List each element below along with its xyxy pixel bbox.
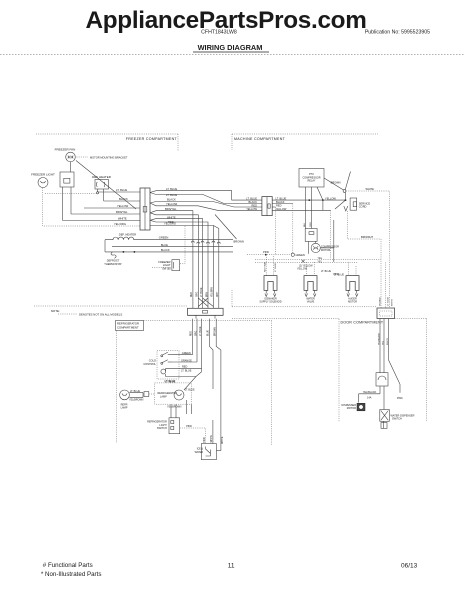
- relay pin wires: [305, 187, 307, 229]
- wire green: [172, 354, 192, 356]
- svg-text:LT. BLUE: LT. BLUE: [166, 193, 177, 197]
- wire lt.blue to service cord: [272, 199, 345, 201]
- junction dots on supply line: [308, 199, 310, 201]
- control switch a: [161, 355, 163, 357]
- svg-text:YEL/ORG: YEL/ORG: [164, 222, 176, 226]
- svg-text:YEL/BROWN: YEL/BROWN: [129, 399, 144, 402]
- relay brown lead: [324, 178, 344, 190]
- svg-text:SW (B): SW (B): [162, 266, 170, 270]
- svg-text:MOTOR MOUNTING BRACKET: MOTOR MOUNTING BRACKET: [90, 155, 128, 159]
- bar fanout wire white drop: [150, 213, 198, 308]
- svg-text:BLACK: BLACK: [161, 248, 170, 252]
- svg-text:NOTE:: NOTE:: [51, 309, 60, 313]
- drop wire color labels: [191, 287, 219, 297]
- svg-text:SWITCH: SWITCH: [157, 427, 167, 430]
- svg-text:YELLOW: YELLOW: [276, 207, 287, 211]
- svg-text:WHITE: WHITE: [222, 436, 224, 444]
- svg-text:WIRING DIAGRAM: WIRING DIAGRAM: [198, 43, 263, 52]
- svg-text:VALVE: VALVE: [307, 300, 315, 303]
- pink splice: [265, 254, 267, 256]
- line switch SW: [343, 190, 346, 193]
- drop wire white right: [218, 229, 220, 309]
- svg-text:# Functional Parts: # Functional Parts: [43, 562, 93, 569]
- freezer light wire (dashed, not on all models): [45, 192, 97, 194]
- wire black: [272, 203, 293, 205]
- cold control box CC: [157, 351, 179, 380]
- refrigerator compartment boundary: [144, 320, 272, 322]
- auger relay module: [376, 373, 388, 386]
- svg-text:BRN/WHT: BRN/WHT: [361, 235, 374, 239]
- svg-text:COMPARTMENT: COMPARTMENT: [117, 326, 139, 330]
- pink wire: [180, 428, 206, 444]
- svg-text:YEL/BLACK: YEL/BLACK: [363, 391, 377, 394]
- wire black lower: [105, 251, 233, 253]
- svg-text:LT. BLUE: LT. BLUE: [388, 296, 390, 306]
- svg-text:MOTOR: MOTOR: [321, 249, 330, 252]
- svg-text:PINK: PINK: [333, 273, 339, 276]
- wire lt.blue: [166, 372, 202, 377]
- svg-text:RED: RED: [276, 203, 282, 207]
- svg-text:MOTOR: MOTOR: [348, 300, 357, 303]
- svg-text:BRN: BRN: [206, 292, 208, 297]
- svg-text:WHT: WHT: [217, 291, 219, 297]
- wire orange: [172, 361, 197, 363]
- svg-text:NEUTRAL: NEUTRAL: [263, 261, 266, 272]
- svg-text:YEL/BLACK: YEL/BLACK: [377, 333, 380, 345]
- svg-text:BRN/YEL: BRN/YEL: [165, 207, 177, 211]
- wire brn/yel: [71, 213, 140, 215]
- water valve receptacle P2: [306, 262, 308, 276]
- lamp drop wires: [171, 404, 176, 418]
- lamp connector: [144, 392, 149, 397]
- brown callout: [215, 215, 237, 240]
- svg-text:LT. BLUE: LT. BLUE: [246, 196, 257, 200]
- svg-text:THERMOSTAT: THERMOSTAT: [104, 262, 122, 266]
- bar fanout wire lt.blue (2): [150, 193, 262, 204]
- wire yellow: [272, 209, 330, 211]
- svg-text:RED: RED: [182, 366, 187, 369]
- wire red: [166, 368, 202, 371]
- machine wiring connector J2: [262, 197, 272, 216]
- svg-text:PINK: PINK: [186, 425, 192, 428]
- door block feed labels: [379, 296, 393, 306]
- water dispenser switch WS: [380, 410, 390, 422]
- svg-text:BROWN: BROWN: [331, 181, 341, 185]
- machine compartment boundary top: [232, 133, 378, 135]
- svg-text:SWITCH: SWITCH: [392, 418, 402, 421]
- svg-text:LT. BLUE: LT. BLUE: [166, 187, 177, 191]
- defrost loop left leg: [104, 240, 106, 252]
- refrigerator lamp assembly (dashed): [155, 383, 192, 404]
- freezer wiring harness connector bar J1: [140, 188, 150, 230]
- refrigerator compartment label box: [116, 321, 144, 331]
- svg-text:GREEN: GREEN: [296, 253, 305, 257]
- svg-text:ORG: ORG: [195, 331, 197, 336]
- wire blue: [112, 246, 233, 248]
- svg-text:LT. BLUE: LT. BLUE: [321, 270, 331, 273]
- svg-text:WHITE: WHITE: [366, 187, 375, 191]
- wire red: [272, 206, 275, 208]
- svg-text:LT. BLUE: LT. BLUE: [165, 380, 176, 383]
- svg-text:ORG: ORG: [197, 292, 199, 297]
- svg-text:YEL/BRN: YEL/BRN: [212, 287, 214, 297]
- svg-text:LT. BLUE: LT. BLUE: [116, 188, 127, 192]
- svg-text:YELLOW: YELLOW: [297, 268, 308, 271]
- service cord ground lead: [347, 211, 381, 308]
- freezer compartment boundary top: [36, 133, 178, 135]
- bar fanout wire red drop: [150, 219, 203, 309]
- svg-text:CORD: CORD: [359, 205, 367, 209]
- svg-text:LT. BLUE: LT. BLUE: [275, 262, 277, 272]
- white return wire: [216, 450, 221, 452]
- wire black: [104, 200, 140, 202]
- svg-text:LT. BLUE: LT. BLUE: [201, 287, 203, 297]
- dispenser motor DM: [359, 394, 380, 403]
- svg-text:BLACK: BLACK: [276, 200, 285, 204]
- junction at heater: [97, 192, 99, 194]
- svg-text:BLACK: BLACK: [248, 200, 257, 204]
- svg-text:CONTROL: CONTROL: [143, 362, 156, 366]
- svg-text:YEL/ORG: YEL/ORG: [114, 222, 126, 226]
- compressor run lead: [308, 241, 310, 253]
- compressor relay K1: [299, 169, 324, 188]
- svg-text:LAMP: LAMP: [121, 407, 128, 410]
- svg-text:FREEZER LIGHT: FREEZER LIGHT: [31, 173, 55, 177]
- svg-text:YELLOW: YELLOW: [166, 202, 178, 206]
- defrost thermostat DT: [111, 252, 116, 258]
- compressor motor C: [311, 243, 320, 252]
- freezer fan connector: [60, 172, 74, 187]
- svg-text:Publication No: 5995523905: Publication No: 5995523905: [365, 30, 430, 36]
- svg-text:BLUE: BLUE: [161, 243, 168, 247]
- svg-text:LT. BLUE: LT. BLUE: [185, 389, 195, 392]
- svg-text:DENOTES NOT ON ALL MODELS: DENOTES NOT ON ALL MODELS: [79, 312, 122, 316]
- svg-text:14A: 14A: [367, 397, 372, 400]
- svg-text:BLUE: BLUE: [208, 330, 210, 336]
- svg-text:BRN/YEL: BRN/YEL: [116, 210, 128, 214]
- machine compartment boundary bottom: [232, 306, 377, 308]
- bar fanout dashed drop: [150, 226, 213, 309]
- svg-text:YELLOW: YELLOW: [117, 204, 129, 208]
- svg-text:BROWN: BROWN: [215, 327, 217, 336]
- icemaker supply receptacle P1: [264, 276, 277, 291]
- svg-text:BLK: BLK: [304, 222, 306, 227]
- svg-text:LT. BLUE: LT. BLUE: [276, 196, 287, 200]
- svg-text:PINK: PINK: [397, 397, 403, 400]
- service cord PS: [350, 198, 357, 210]
- svg-text:PINK: PINK: [204, 437, 206, 443]
- compressor overload OL: [305, 229, 317, 242]
- refr door lamp L1: [120, 390, 130, 400]
- cross-over swap before refrigerator connector: [198, 298, 213, 307]
- bracket leader wire: [76, 161, 136, 210]
- svg-text:YELLOW: YELLOW: [246, 207, 257, 211]
- svg-text:YELLOW: YELLOW: [325, 196, 336, 200]
- svg-text:BLACK: BLACK: [119, 197, 128, 201]
- receptacle 1 leads: [265, 255, 267, 276]
- svg-text:WHITE: WHITE: [392, 298, 394, 306]
- dashed drop to freezer light switch: [180, 226, 185, 264]
- svg-text:FREEZER COMPARTMENT: FREEZER COMPARTMENT: [126, 137, 178, 141]
- svg-text:LT. BLUE: LT. BLUE: [181, 369, 192, 372]
- bar fanout wire yellow: [150, 203, 262, 210]
- svg-text:SUPPLY SOLENOID: SUPPLY SOLENOID: [259, 300, 282, 303]
- bar fanout wire yel/org drop: [150, 220, 208, 308]
- svg-text:GREEN: GREEN: [159, 236, 169, 240]
- svg-text:LT. BLUE: LT. BLUE: [200, 326, 202, 336]
- splice X: [302, 260, 305, 263]
- svg-text:RED: RED: [191, 292, 193, 297]
- bar fanout wire lt.blue (1): [150, 191, 262, 200]
- ground G: [291, 253, 294, 256]
- svg-text:MACHINE COMPARTMENT: MACHINE COMPARTMENT: [234, 137, 286, 141]
- svg-text:06/13: 06/13: [401, 563, 418, 570]
- wire yellow: [84, 207, 140, 209]
- svg-text:11: 11: [228, 563, 235, 570]
- header separator rule: [0, 54, 464, 56]
- auger motor receptacle P3: [347, 262, 349, 275]
- svg-text:* Non-Illustrated Parts: * Non-Illustrated Parts: [41, 571, 102, 578]
- svg-text:WHITE: WHITE: [387, 337, 389, 345]
- module drop wires: [380, 386, 384, 410]
- freezer compartment boundary bottom: [34, 305, 187, 307]
- svg-text:MOTOR: MOTOR: [347, 407, 356, 410]
- neutral run dashes: [274, 207, 276, 255]
- crossover bumps on drop wires: [191, 241, 220, 244]
- svg-text:ORG: ORG: [310, 222, 312, 227]
- door connector block J4: [377, 308, 395, 319]
- control lamp c: [161, 369, 166, 374]
- motor mounting bracket callout: [77, 156, 89, 158]
- svg-text:FREEZER FAN: FREEZER FAN: [55, 148, 76, 152]
- svg-text:RELAY: RELAY: [307, 180, 315, 183]
- svg-text:YEL/BROWN: YEL/BROWN: [167, 406, 182, 409]
- junction dots on black wire: [123, 251, 125, 253]
- svg-text:DEF HEATER: DEF HEATER: [92, 175, 112, 179]
- svg-text:CFHT1843LW8: CFHT1843LW8: [201, 30, 237, 36]
- svg-text:BROWN: BROWN: [234, 240, 244, 244]
- refr lamp L2: [174, 390, 184, 400]
- bar fanout wire brn/yel drop: [150, 211, 193, 309]
- wire lt.blue to lamp: [184, 377, 196, 391]
- svg-text:RED: RED: [252, 203, 258, 207]
- white wire to door: [346, 191, 390, 308]
- svg-text:DOOR COMPARTMENT: DOOR COMPARTMENT: [341, 320, 384, 324]
- svg-text:YEL/BLK: YEL/BLK: [379, 297, 381, 306]
- door compartment boundary: [232, 318, 339, 320]
- svg-text:WATER: WATER: [195, 451, 204, 454]
- svg-text:DEF. HEATER: DEF. HEATER: [119, 233, 136, 237]
- svg-text:LAMP: LAMP: [160, 395, 167, 398]
- wire lt.blue: [98, 191, 140, 193]
- svg-text:YEL: YEL: [318, 261, 323, 264]
- svg-text:LT. BLUE: LT. BLUE: [130, 390, 140, 393]
- svg-text:BLACK: BLACK: [167, 198, 176, 202]
- svg-text:WHITE: WHITE: [118, 217, 127, 221]
- svg-text:RED: RED: [191, 331, 193, 336]
- svg-text:PINK: PINK: [263, 250, 269, 254]
- block drop wires: [191, 319, 193, 355]
- svg-text:ORANGE: ORANGE: [181, 359, 192, 362]
- door drop wires: [379, 319, 381, 373]
- refrigerator connector block J3: [188, 308, 224, 315]
- wire white: [63, 220, 140, 222]
- bar fanout wire black: [150, 202, 262, 208]
- svg-text:GREEN: GREEN: [182, 352, 191, 355]
- control switch b: [161, 362, 163, 364]
